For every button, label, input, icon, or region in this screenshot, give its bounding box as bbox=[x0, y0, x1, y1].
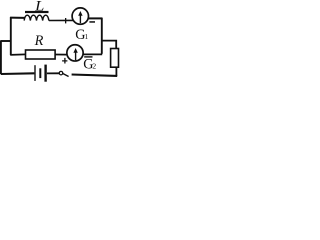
svg-text:L: L bbox=[34, 0, 44, 14]
resistor right box bbox=[111, 49, 119, 68]
wire bottom right segment bbox=[72, 75, 118, 76]
galvanometer G1 bbox=[72, 8, 88, 24]
wire left edge vertical bbox=[0, 41, 2, 74]
svg-text:2: 2 bbox=[92, 62, 96, 71]
wire coil to G1 bbox=[49, 19, 74, 21]
wire resistor R to G2 bbox=[55, 54, 67, 56]
wire left jog horizontal bbox=[0, 40, 11, 42]
inductor L core bar bbox=[25, 11, 49, 13]
inductor L coil bbox=[24, 15, 49, 20]
G2 minus polarity bbox=[84, 56, 92, 57]
galvanometer G2 bbox=[67, 45, 83, 61]
battery plate long thick bbox=[44, 65, 46, 82]
wire right vertical bbox=[101, 18, 103, 54]
wire branch to right resistor bbox=[101, 41, 116, 49]
svg-text:R: R bbox=[34, 33, 44, 49]
wire G2 to right vertical bbox=[83, 53, 102, 55]
wire battery to switch bbox=[47, 72, 59, 74]
wire right resistor to bottom bbox=[115, 67, 117, 76]
G1 needle arrow bbox=[79, 15, 81, 24]
G1 minus polarity bbox=[89, 21, 95, 23]
G2 plus polarity bbox=[62, 58, 67, 64]
battery plate long thin bbox=[34, 65, 35, 81]
G2 needle arrow bbox=[75, 52, 77, 61]
wire upper-left vertical bbox=[10, 17, 12, 55]
wire bottom left segment bbox=[1, 72, 35, 75]
switch S hinge contact bbox=[59, 71, 63, 75]
wire G1 to top-right corner bbox=[88, 17, 102, 19]
svg-text:1: 1 bbox=[85, 32, 89, 41]
wire top-left horizontal bbox=[10, 17, 25, 19]
resistor R box bbox=[26, 50, 56, 59]
battery plate short thick bbox=[39, 68, 41, 78]
wire middle-left to resistor R bbox=[10, 53, 25, 56]
switch S lever bbox=[63, 74, 69, 77]
G1 plus polarity tick bbox=[65, 18, 66, 23]
